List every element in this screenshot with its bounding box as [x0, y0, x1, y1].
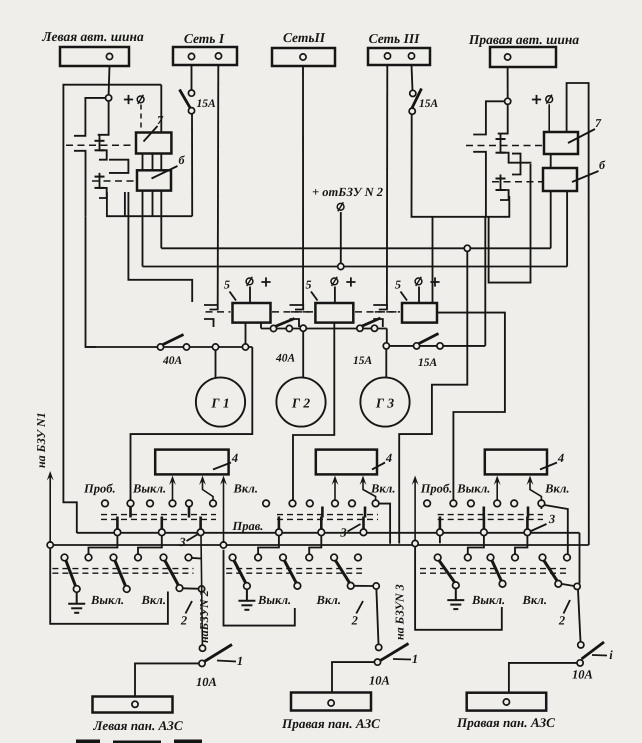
phi terminal regulator 3: [415, 277, 422, 286]
contact row1 5 left group: [186, 500, 193, 507]
wire Сеть I to fuse switch: [191, 65, 193, 90]
wire right Вкл contact pair: [562, 584, 575, 586]
contact bar mid 1 middle group: [278, 517, 281, 530]
left relay center wire from node down: [98, 101, 109, 135]
indicator box 4 left group: [155, 450, 228, 475]
wire elbow mid-to-row2 middle group 278.9: [258, 536, 279, 555]
linkage dashed upper right group: [438, 514, 543, 516]
junction bus B on mid line: [220, 542, 226, 548]
wire 10A-3 to right panel: [509, 663, 577, 699]
switch 40A G1 contact b: [183, 344, 189, 350]
svg-text:Левая пан. АЗС: Левая пан. АЗС: [92, 718, 183, 733]
switch 15A G3a contact b: [371, 325, 377, 331]
svg-text:+ отБЗУ N 2: + отБЗУ N 2: [312, 185, 383, 199]
wire mid row1-6 to bus B: [379, 504, 390, 544]
wire Правая шина to node: [507, 67, 509, 98]
svg-text:Вкл.: Вкл.: [141, 593, 166, 607]
left relay linkage dashed upper: [66, 144, 135, 146]
terminal Левая пан. АЗС: [132, 701, 138, 707]
terminal on Сеть II: [300, 54, 306, 60]
caption fragment Рис: [76, 740, 202, 743]
wire elbow mid-to-row2 left group 117.4: [89, 536, 118, 555]
wire left relay to 40A row: [86, 216, 97, 347]
terminal 1 on Сеть I: [188, 53, 194, 59]
right relay inner bracket: [512, 154, 521, 175]
contact mid 1 middle group: [276, 529, 283, 536]
relay K6 left (6): [137, 170, 171, 190]
right relay contact tick 1: [496, 138, 506, 140]
right relay contact staircase lower: [500, 175, 509, 201]
contact row2 4 left group: [135, 554, 142, 561]
switch 10A-2 upper contact: [376, 644, 382, 650]
pointer label 2 left group: [186, 601, 193, 614]
phi terminal left relay: [137, 95, 144, 104]
svg-text:Проб.: Проб.: [420, 482, 453, 496]
regulator 2 pin down: [333, 323, 335, 329]
feed wire right of Г2 to mid group: [293, 329, 334, 501]
wire на БЗУ N2 line: [201, 536, 202, 645]
junction N2 line lower: [199, 586, 205, 592]
indicator box 4 right group: [485, 450, 547, 475]
wire elbow mid-to-row2 right group 483.9: [468, 536, 484, 555]
wire от БЗУ N2 down: [340, 212, 342, 264]
wire fuse F1 down: [191, 114, 193, 216]
left relay contact tick 2: [95, 149, 105, 151]
contact row1 5 right group: [511, 500, 518, 507]
switch 40A G2 contact b: [286, 325, 292, 331]
svg-text:Правая пан. АЗС: Правая пан. АЗС: [456, 715, 555, 730]
wire Левая шина to node: [108, 66, 111, 95]
svg-text:б: б: [599, 158, 606, 172]
plus terminal regulator 1: [261, 277, 270, 286]
contact bar upper 1 middle group: [321, 507, 324, 518]
svg-text:15А: 15А: [418, 357, 438, 369]
contact bar mid 3 right group: [526, 517, 529, 530]
svg-text:на БЗУ N1: на БЗУ N1: [34, 412, 48, 468]
svg-text:4: 4: [385, 451, 392, 465]
svg-text:Сеть I: Сеть I: [184, 31, 225, 46]
contact row1 4 right group: [494, 500, 501, 507]
linkage2 dashed upper left group: [52, 568, 193, 570]
svg-text:Вкл.: Вкл.: [316, 593, 341, 607]
bus wire 3: [143, 266, 568, 268]
contact row2 4 right group: [512, 554, 519, 561]
fuse switch F1 blade: [180, 90, 191, 109]
contact row1 3 middle group: [307, 500, 314, 507]
feed wire left relay edge to bus A start: [63, 497, 76, 533]
panel Правая пан. АЗС right: [467, 693, 547, 711]
left relay frame right edge: [160, 85, 162, 249]
arrow into box4 right left group: [203, 481, 214, 500]
junction regulator1 left pin: [242, 344, 248, 350]
svg-text:40А: 40А: [275, 353, 296, 365]
linkage2 dashed lower left group: [52, 572, 193, 574]
junction G3 top wire: [383, 343, 389, 349]
pointer label 3 left group: [187, 534, 200, 542]
switch 40A G1 blade: [162, 335, 184, 346]
fuse switch F2 upper contact: [410, 90, 416, 96]
linkage dashed lower right group: [438, 518, 543, 520]
switch 10A-2 blade: [380, 644, 409, 662]
switch 10A-1 upper contact: [199, 645, 205, 651]
linkage2 dashed upper right group: [420, 568, 570, 570]
plus terminal regulator 3: [430, 277, 439, 286]
linkage2 dashed lower middle group: [226, 572, 362, 574]
svg-text:2: 2: [180, 614, 187, 628]
generator Г3: [360, 377, 409, 426]
bus bar Левая авт. шина: [60, 47, 129, 66]
contact row1 3 left group: [147, 500, 154, 507]
enclosure middle group: [224, 550, 295, 626]
wire row G2: [261, 328, 387, 330]
wire elbow mid-to-row2 right group 527.4: [515, 536, 527, 555]
contact row2 6 middle group: [355, 554, 362, 561]
svg-text:Правая пан. АЗС: Правая пан. АЗС: [281, 716, 380, 731]
voltage regulator 2 box 5: [315, 303, 353, 323]
wire right extra contact down to 10A: [578, 590, 581, 642]
switch lower contact middle group 350.7: [347, 583, 354, 590]
left relay bottom edge: [107, 192, 192, 216]
contact row2 3 middle group: [280, 554, 287, 561]
right relay P-wire up-over-down long right wire: [567, 83, 589, 545]
contact row1 3 right group: [468, 500, 475, 507]
right relay contact tick 2: [496, 152, 506, 154]
generator Г2: [276, 377, 325, 426]
contact bar mid 2 right group: [483, 517, 486, 530]
svg-text:Выкл.: Выкл.: [90, 593, 124, 607]
wire generator Г2 top: [302, 331, 304, 377]
junction on bus 2: [464, 245, 470, 251]
contact row1 6 right group: [538, 500, 545, 507]
svg-text:Вкл.: Вкл.: [233, 482, 258, 496]
wire left row2-6 to N2 line: [192, 557, 201, 560]
pointer to relay 6 left: [152, 166, 178, 179]
plus terminal regulator 2: [346, 277, 355, 286]
wire generator Г1 top: [215, 350, 217, 377]
regulator 1 input bracket upper: [204, 305, 218, 310]
pointer label 1 switch 10A-2: [393, 658, 411, 661]
contact row1 2 left group: [127, 500, 134, 507]
plus terminal left relay: [124, 95, 133, 104]
switch blade middle group 232.6: [234, 561, 246, 584]
linkage dashed lower left group: [101, 518, 216, 520]
panel Правая пан. АЗС middle: [291, 693, 371, 711]
wire Сеть I right terminal down: [217, 65, 220, 305]
bus bar Сеть I: [173, 47, 237, 65]
wire phi regulator 3 to box: [418, 287, 420, 304]
relay K7 left (7): [136, 133, 171, 154]
pointer to relay 6 right: [572, 171, 599, 182]
arrow на БЗУ N3 stem: [414, 481, 416, 541]
linkage dashed upper middle group: [277, 514, 378, 516]
switch blade right group 490.5: [492, 561, 501, 581]
contact row1 4 middle group: [332, 500, 339, 507]
wire 10A-1 to left panel: [135, 663, 199, 701]
phi terminal от БЗУ N2: [337, 202, 344, 211]
enclosure right group: [415, 547, 502, 630]
svg-text:1: 1: [412, 652, 418, 666]
right relay contact tick 3: [496, 178, 506, 180]
terminal on Правая авт. шина: [505, 54, 511, 60]
wire bus2 junction down to bus B: [399, 251, 467, 543]
svg-text:Вкл.: Вкл.: [544, 482, 569, 496]
generator Г1: [196, 377, 245, 426]
svg-text:10А: 10А: [196, 675, 217, 689]
switch blade middle group 283: [284, 561, 296, 583]
svg-text:15А: 15А: [197, 98, 217, 110]
switch blade left group 163.5: [165, 561, 178, 586]
right relay lower C-bracket: [473, 152, 486, 217]
contact mid 2 left group: [159, 529, 166, 536]
terminal 2 on Сеть I: [215, 53, 221, 59]
contact bar upper 1 left group: [129, 507, 132, 518]
right relay linkage dashed lower: [492, 181, 542, 183]
wire left Вкл contact to N2 line: [183, 587, 201, 590]
wire right mid1 stub to bus B: [439, 536, 441, 544]
feed wire box5-3 right pin to right group: [437, 313, 505, 501]
left relay inner pin a: [124, 192, 126, 216]
bus bar Сеть III: [368, 48, 430, 65]
svg-text:i: i: [609, 648, 613, 662]
relay K7 right (7): [544, 132, 578, 154]
contact row1 1 middle group: [263, 500, 270, 507]
switch lower contact right group 558.3: [555, 581, 562, 588]
terminal 1 on Сеть III: [384, 53, 390, 59]
right relay contact tick 4: [496, 189, 506, 191]
svg-text:15А: 15А: [353, 355, 373, 367]
wire right relay T-branch down to regulator 3: [432, 217, 434, 304]
pointer label 3 right group: [531, 524, 547, 531]
wire Сеть III left down: [386, 65, 388, 305]
wire phi regulator 2 to box: [334, 287, 336, 304]
contact bar upper 2 middle group: [364, 507, 367, 518]
left relay K7-K6 pin b: [152, 154, 154, 171]
switch lower contact right group 502.5: [499, 581, 506, 588]
contact bar mid 1 right group: [439, 517, 442, 530]
enclosure left group: [50, 548, 168, 624]
junction G1 top wire: [212, 344, 218, 350]
junction bus B on N1 line: [47, 542, 53, 548]
svg-text:Выкл.: Выкл.: [471, 593, 505, 607]
wire phi to relay K7 dashed: [140, 105, 142, 132]
wire generator Г3 top: [385, 349, 387, 377]
svg-text:Выкл.: Выкл.: [132, 482, 166, 496]
svg-text:3: 3: [339, 526, 346, 540]
arrow into box4 left right group: [496, 481, 498, 500]
feed wire right of Г1 to left group: [131, 347, 253, 500]
bus bar Сеть II: [272, 48, 335, 66]
contact row2 1 left group: [61, 554, 68, 561]
wire left relay pin to bus4-left: [128, 192, 192, 302]
contact row2 5 left group: [160, 554, 167, 561]
bus bar Правая авт. шина: [490, 47, 556, 67]
regulator 1 linkage dashes left: [206, 311, 231, 313]
switch 15A G3b blade: [418, 334, 439, 345]
lower bus A mid contacts: [77, 532, 580, 534]
contact mid 3 right group: [524, 529, 531, 536]
terminal Правая пан. АЗС right: [503, 699, 509, 705]
left relay pin to bottom edge: [152, 191, 154, 217]
switch lower contact left group 126.7: [123, 586, 130, 593]
left relay K7-K6 pin a: [142, 154, 144, 171]
arrow into box4 right middle group: [363, 481, 376, 500]
contact mid 1 right group: [437, 529, 444, 536]
contact bar upper 2 right group: [527, 507, 530, 518]
pointer label 5 regulator 3: [401, 292, 408, 301]
wire right row1-6 elbow to row2-6: [540, 507, 542, 509]
svg-text:Прав.: Прав.: [232, 519, 264, 533]
switch 10A-1 blade: [204, 645, 233, 663]
contact row1 1 right group: [424, 500, 431, 507]
ground left group: [68, 592, 85, 613]
contact bar upper 1 right group: [482, 507, 485, 518]
svg-text:на БЗУN 3: на БЗУN 3: [393, 584, 407, 640]
bus wire 2: [161, 247, 550, 249]
svg-text:Правая авт. шина: Правая авт. шина: [468, 32, 579, 47]
contact bar mid 2 left group: [161, 517, 164, 530]
svg-text:Левая авт. шина: Левая авт. шина: [41, 29, 144, 44]
contact row1 2 right group: [450, 500, 457, 507]
svg-text:2: 2: [351, 614, 358, 628]
arrow into box4 left left group: [172, 481, 174, 500]
pointer to relay 7 right: [568, 129, 595, 143]
right relay center wire from node down: [498, 105, 508, 134]
fuse switch F1 lower contact: [188, 108, 194, 114]
wire phi regulator 1 to box: [249, 287, 251, 304]
pointer to relay 7 left: [144, 126, 158, 142]
svg-text:Сеть III: Сеть III: [369, 31, 420, 46]
contact row2 3 right group: [487, 554, 494, 561]
right relay K7-K6 pin: [550, 154, 552, 168]
svg-text:4: 4: [231, 451, 238, 465]
regulator 3 input bracket lower: [373, 319, 383, 327]
svg-text:Вкл.: Вкл.: [522, 593, 547, 607]
terminal 2 on Сеть III: [408, 53, 414, 59]
switch lower contact middle group 246.9: [244, 583, 251, 590]
switch 40A G2 contact a: [270, 325, 276, 331]
junction on bus 3: [338, 263, 344, 269]
contact row2 1 middle group: [229, 554, 236, 561]
pointer label 5 regulator 2: [311, 292, 318, 301]
svg-text:5: 5: [306, 278, 312, 292]
svg-text:7: 7: [157, 113, 164, 127]
svg-text:Проб.: Проб.: [83, 482, 116, 496]
voltage regulator 3 box 5: [402, 303, 437, 323]
wire 10A-2 to middle panel: [332, 662, 374, 700]
relay K6 right (6): [543, 168, 577, 191]
switch 15A G3a blade: [362, 318, 381, 326]
svg-text:10А: 10А: [369, 674, 390, 688]
switch lower contact left group 179.5: [176, 585, 183, 592]
switch 15A G3b contact b: [437, 343, 443, 349]
pointer label 1 switch 10A-1: [217, 661, 236, 662]
wire 15A row G3: [389, 345, 485, 347]
svg-text:5: 5: [224, 278, 230, 292]
contact right of Вкл middle: [373, 583, 379, 589]
wire mid Вкл contact pair: [354, 585, 373, 587]
pointer label 2 middle group: [356, 601, 363, 614]
left relay L-wire from node: [74, 98, 106, 136]
linkage dashed lower middle group: [277, 518, 378, 520]
svg-text:5: 5: [395, 278, 401, 292]
regulator 2 input bracket upper: [290, 305, 304, 310]
regulator 3 input bracket upper: [373, 305, 387, 310]
contact row1 4 left group: [169, 500, 176, 507]
linkage2 dashed upper middle group: [226, 568, 362, 570]
pointer label 4 right group: [540, 463, 557, 470]
regulator 1 right pin down: [260, 323, 262, 329]
fuse switch F1 upper contact: [188, 90, 194, 96]
pointer label 4 left group: [213, 463, 231, 470]
switch blade left group 113.5: [115, 561, 126, 587]
svg-text:3: 3: [178, 535, 185, 549]
phi terminal regulator 1: [246, 277, 253, 286]
left relay lower C-bracket: [74, 151, 86, 216]
right relay contact staircase upper: [501, 134, 532, 163]
svg-text:наБЗУN 2: наБЗУN 2: [197, 590, 211, 643]
svg-text:б: б: [179, 153, 186, 167]
left relay contact staircase lower: [99, 173, 107, 198]
svg-text:40А: 40А: [162, 355, 183, 367]
contact bar mid 2 middle group: [320, 517, 323, 530]
contact bar mid 3 middle group: [362, 517, 365, 530]
contact row2 5 right group: [539, 554, 546, 561]
contact row1 6 left group: [210, 500, 217, 507]
regulator 2 input bracket lower: [290, 319, 300, 327]
wire 40A row G1: [85, 346, 252, 348]
contact mid 2 middle group: [318, 529, 325, 536]
contact mid 2 right group: [481, 529, 488, 536]
svg-text:Г 2: Г 2: [291, 396, 311, 411]
contact bar mid 1 left group: [116, 517, 119, 530]
contact row2 2 left group: [85, 554, 92, 561]
switch blade right group 437.7: [439, 561, 455, 583]
regulator linkage dashes 1-2: [272, 311, 313, 313]
plus terminal right relay: [532, 95, 541, 104]
contact row2 5 middle group: [331, 554, 338, 561]
svg-text:1: 1: [237, 654, 243, 668]
arrow into box4 left middle group: [334, 481, 336, 500]
panel Левая пан. АЗС: [93, 697, 173, 713]
left relay contact staircase upper: [99, 135, 107, 160]
lower bus A drop right: [579, 533, 581, 584]
right relay K6 right pin to bus3: [566, 191, 568, 267]
phi terminal right relay: [546, 95, 553, 104]
regulator linkage dashes 2-3: [355, 311, 400, 313]
wire right relay bracket pin down to 15A row: [484, 217, 486, 346]
wire Сеть II down: [302, 66, 304, 305]
junction bus B on N3 line: [412, 540, 418, 546]
right relay L-wire from node: [473, 101, 504, 134]
contact row1 5 middle group: [349, 500, 356, 507]
pointer label 4 middle group: [372, 463, 385, 470]
contact bar mid 3 left group: [199, 517, 202, 530]
pointer label 5 regulator 1: [230, 292, 237, 301]
regulator 1 left pin down: [245, 323, 247, 344]
svg-text:7: 7: [595, 116, 602, 130]
switch 40A G2 blade: [275, 319, 295, 327]
svg-text:4: 4: [557, 451, 564, 465]
ground middle group: [238, 589, 255, 610]
switch 10A-1 lower contact: [199, 660, 205, 666]
pointer label 2 right group: [564, 600, 571, 614]
svg-text:СетьII: СетьII: [283, 30, 326, 45]
switch 15A G3b contact a: [414, 343, 420, 349]
switch blade right group 542.5: [544, 561, 557, 581]
wire mid extra contact down to 10A: [376, 589, 378, 644]
contact row2 3 left group: [110, 554, 117, 561]
contact row2 1 right group: [434, 554, 441, 561]
